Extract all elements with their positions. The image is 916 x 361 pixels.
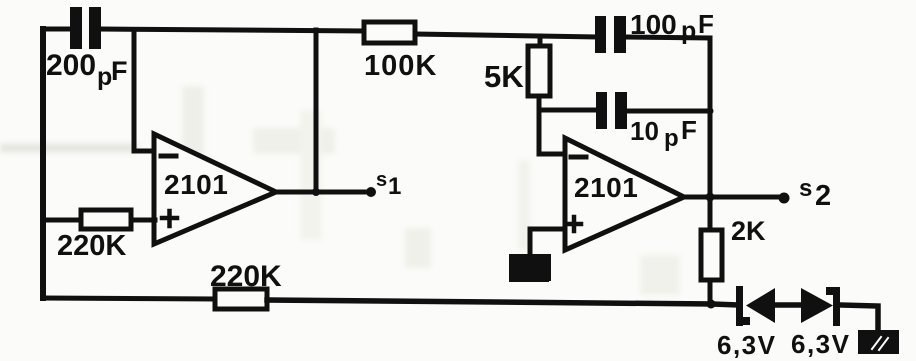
wire 5K top stub [538, 36, 543, 46]
wire bottom to D1 [712, 304, 739, 305]
label 10pF [630, 115, 697, 152]
wire left rail [40, 29, 46, 298]
node U2 output junction [706, 193, 715, 202]
svg-text:F: F [698, 9, 714, 39]
wire C1 to R1 [100, 29, 364, 31]
wire bottom left [43, 298, 215, 299]
svg-text:p: p [97, 63, 112, 91]
wire bottom middle [267, 300, 712, 304]
resistor 5K [528, 46, 550, 96]
op-amp U2 2101 [565, 138, 684, 250]
capacitor 10pF [596, 92, 627, 129]
label s2 [799, 175, 831, 212]
wire 2K bottom [708, 280, 713, 304]
label 200pF [46, 49, 128, 91]
svg-text:2101: 2101 [164, 169, 228, 200]
node 10pF right junction [707, 108, 714, 115]
svg-text:F: F [111, 56, 128, 86]
diode zener D2 6,3V [801, 287, 840, 326]
svg-text:s: s [376, 169, 387, 191]
label 100pF [630, 9, 714, 45]
resistor 220K input [81, 210, 131, 229]
wire U1 output [276, 190, 371, 195]
resistor 100K [364, 22, 415, 43]
capacitor 100pF [595, 16, 626, 53]
wire 10pF left [539, 108, 597, 113]
wire U2 output to 2K [708, 197, 713, 230]
terminal s2 [779, 193, 790, 204]
wire R1 to C2 [415, 34, 596, 37]
node bottom junction [707, 300, 716, 309]
svg-text:p: p [664, 125, 679, 152]
resistor 2K [701, 230, 722, 280]
wire U2 output [684, 195, 784, 200]
wire 10pF right [627, 109, 710, 114]
svg-text:p: p [681, 17, 696, 45]
wire right vertical feedback [708, 38, 713, 197]
svg-text:5K: 5K [484, 59, 524, 94]
svg-text:F: F [681, 115, 697, 145]
wire 5K bottom to U2 inverting input [539, 96, 566, 154]
diode zener D1 6,3V [736, 286, 775, 326]
wire top left to C1 [43, 27, 71, 32]
wire plus input U2 to ground [530, 229, 565, 254]
svg-text:s: s [799, 175, 812, 202]
svg-text:2101: 2101 [574, 172, 638, 203]
wire plus input left U1 [43, 218, 81, 223]
svg-text:220K: 220K [57, 230, 126, 262]
label s1 [376, 169, 401, 200]
svg-text:220K: 220K [210, 260, 282, 293]
svg-text:2: 2 [815, 180, 831, 212]
wire C2 to right vertical [626, 37, 710, 38]
wire feedback vertical U1 [314, 30, 319, 192]
wire D1 to D2 [775, 302, 801, 308]
capacitor 200pF [70, 7, 101, 49]
svg-text:200: 200 [46, 49, 96, 82]
svg-text:100K: 100K [364, 50, 437, 82]
svg-text:1: 1 [388, 173, 401, 200]
resistor 220K feedback [215, 289, 267, 309]
svg-text:10: 10 [630, 116, 659, 146]
terminal s1 [366, 187, 376, 197]
wire D2 to ground [840, 305, 878, 331]
op-amp U1 2101 [154, 134, 276, 244]
svg-text:6,3V: 6,3V [717, 330, 777, 360]
svg-text:6,3V: 6,3V [791, 329, 851, 359]
wire inverting input drop U1 [134, 30, 155, 151]
ground U2 [513, 258, 547, 278]
ground right [862, 334, 895, 350]
wire R220K to plus input [131, 218, 155, 223]
node U1 output junction [312, 188, 320, 196]
svg-text:2K: 2K [731, 216, 766, 246]
